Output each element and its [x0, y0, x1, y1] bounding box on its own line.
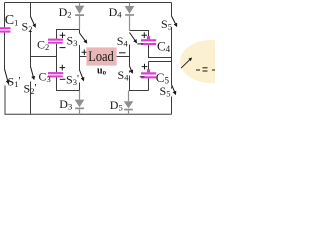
- svg-text:C3: C3: [39, 70, 51, 85]
- svg-text:D3: D3: [59, 97, 72, 112]
- svg-text:D5: D5: [110, 98, 123, 113]
- svg-text:S2: S2: [22, 20, 33, 35]
- svg-text:S5: S5: [161, 17, 172, 32]
- svg-text:D4: D4: [109, 5, 123, 20]
- svg-text:S1': S1': [8, 75, 21, 90]
- svg-text:S3: S3: [67, 33, 78, 48]
- svg-text:S3': S3': [66, 73, 79, 88]
- svg-text:S4': S4': [118, 68, 131, 83]
- svg-text:D2: D2: [59, 5, 72, 20]
- svg-text:C2: C2: [37, 37, 49, 52]
- svg-text:Load: Load: [88, 49, 114, 65]
- svg-text:uo: uo: [97, 65, 107, 76]
- svg-text:S2': S2': [24, 82, 37, 97]
- svg-text:C4: C4: [157, 39, 171, 55]
- svg-text:C1: C1: [5, 13, 19, 28]
- svg-text:S4: S4: [117, 34, 129, 49]
- svg-text:S5': S5': [160, 84, 173, 99]
